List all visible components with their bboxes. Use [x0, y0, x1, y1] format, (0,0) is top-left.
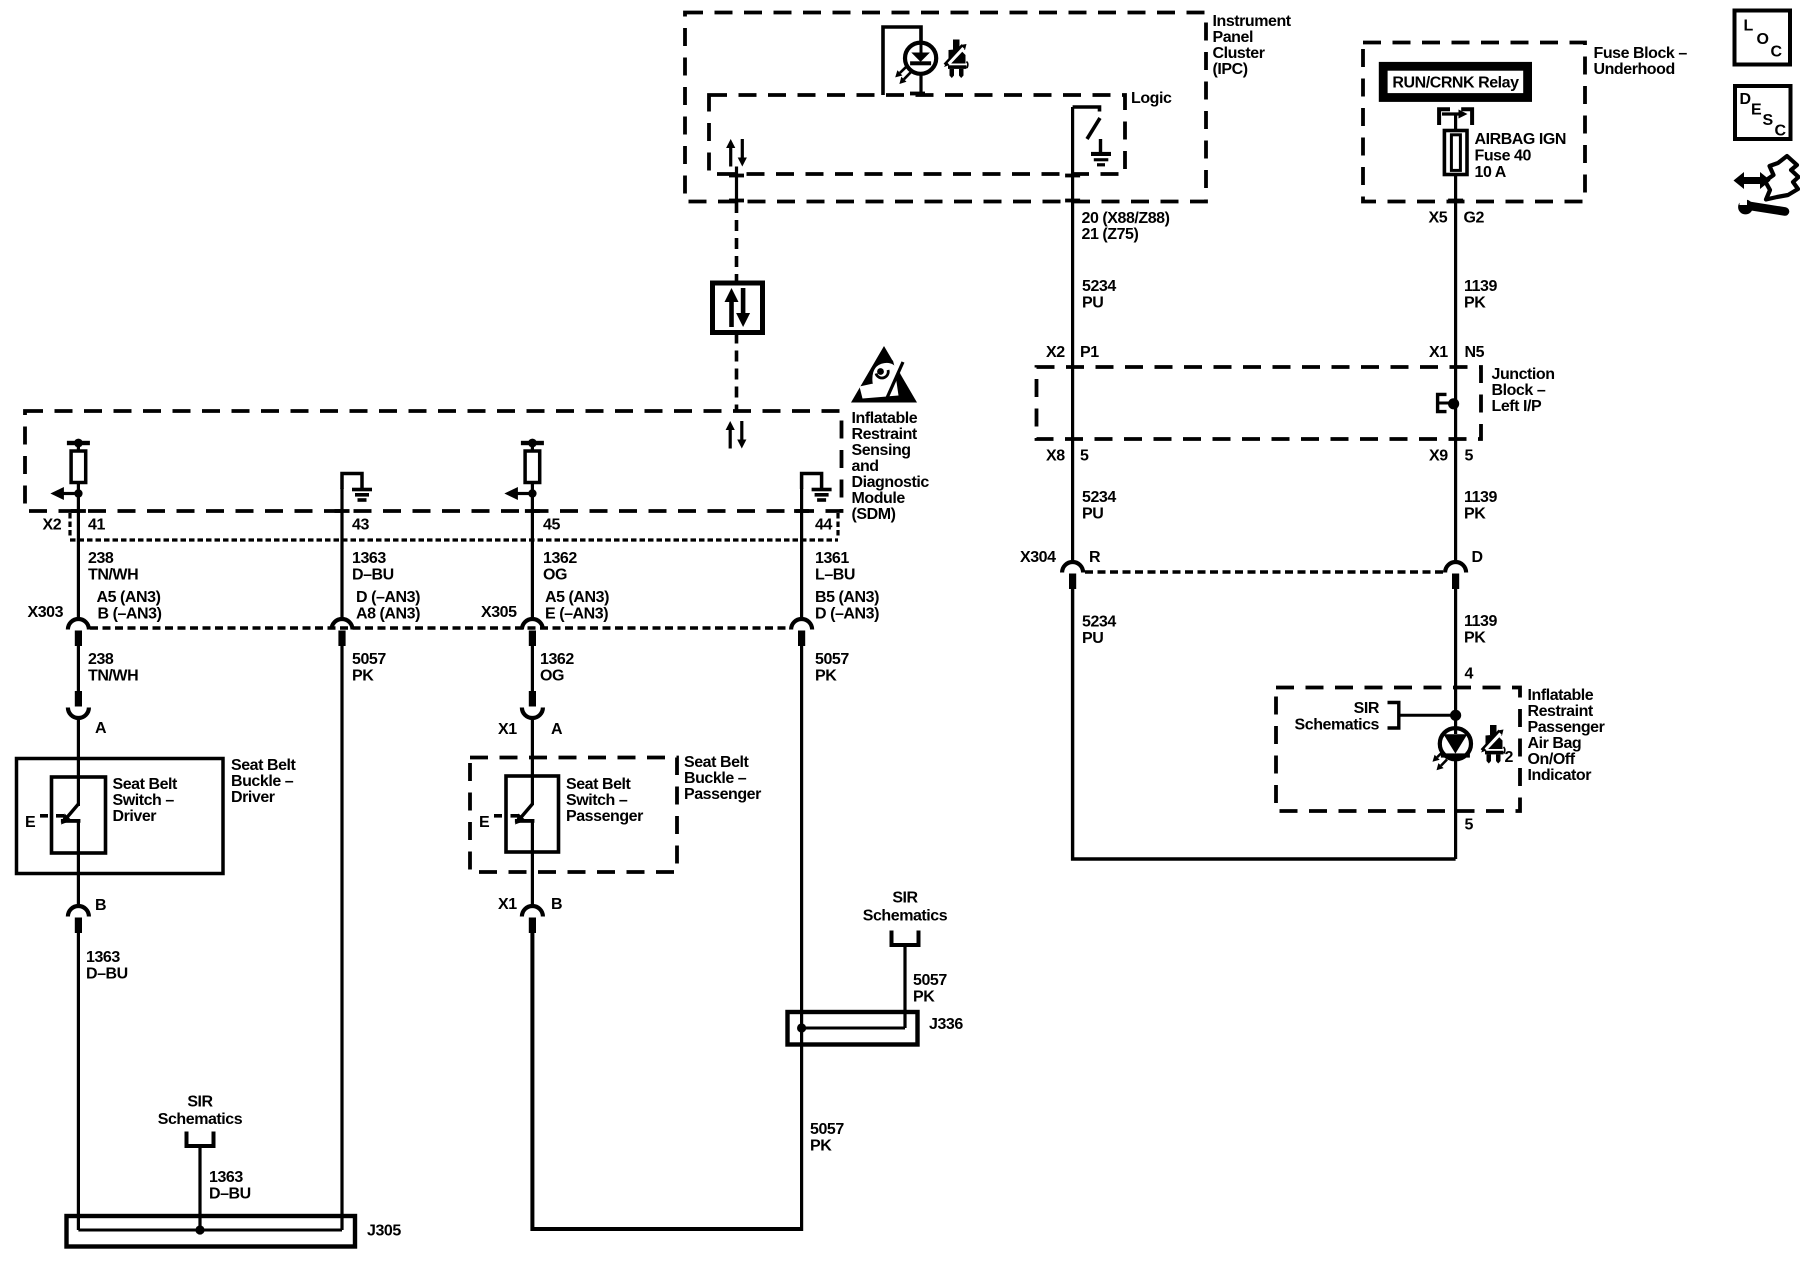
wire through indicator (pin 4 to pin 5) — [1454, 728, 1457, 859]
svg-text:Restraint: Restraint — [852, 426, 918, 443]
svg-text:D–BU: D–BU — [352, 567, 394, 584]
svg-text:5: 5 — [1465, 817, 1474, 834]
warning triangle (air bag caution) — [851, 346, 917, 403]
svg-text:SIR: SIR — [892, 890, 918, 907]
wire: passenger buckle return to ground rail — [532, 933, 801, 1229]
svg-text:A8 (AN3): A8 (AN3) — [356, 606, 420, 623]
in-line connector (wire 1363) — [332, 619, 353, 646]
svg-text:PK: PK — [1464, 506, 1486, 523]
pin label 5 — [1465, 817, 1474, 834]
svg-text:PK: PK — [1464, 295, 1486, 312]
wire: passenger switch to pin B — [531, 821, 534, 906]
svg-text:B: B — [95, 897, 106, 914]
up/down arrows inside SDM — [726, 421, 747, 449]
svg-text:Driver: Driver — [113, 808, 157, 825]
in-line connector X1 pin A (passenger buckle) — [498, 691, 563, 738]
wire label 1361 L-BU — [815, 550, 855, 584]
svg-text:Switch –: Switch – — [566, 792, 628, 809]
connector boundary dashed line X304 — [1085, 570, 1443, 574]
E mechanical link (passenger) — [479, 814, 519, 831]
svg-text:Fuse Block –: Fuse Block – — [1594, 45, 1688, 62]
svg-text:5: 5 — [1465, 448, 1474, 465]
svg-text:Indicator: Indicator — [1528, 767, 1592, 784]
svg-text:PK: PK — [815, 668, 837, 685]
svg-text:B (–AN3): B (–AN3) — [98, 606, 162, 623]
wire label 1139 PK (middle) — [1464, 489, 1497, 523]
wire: 1139 PK junction block to in-line D — [1454, 367, 1457, 562]
svg-text:4: 4 — [1465, 666, 1474, 683]
wire: circuit 1362 OG (SDM 45 to X1-A) — [531, 483, 534, 620]
svg-text:J336: J336 — [929, 1016, 963, 1033]
wire label 238 TN/WH — [88, 550, 138, 584]
svg-text:5234: 5234 — [1082, 278, 1116, 295]
svg-text:C: C — [1775, 123, 1787, 140]
svg-text:OG: OG — [543, 567, 567, 584]
svg-text:5057: 5057 — [815, 651, 849, 668]
SDM connector boundary line X2 — [70, 513, 838, 540]
connector boundary dashed line X303-X305 — [90, 626, 790, 630]
in-line connector pin B (driver buckle) — [68, 897, 106, 933]
wire label 1363 D-BU (SIR branch) — [209, 1169, 251, 1203]
svg-text:D: D — [1472, 549, 1483, 566]
svg-text:AIRBAG IGN: AIRBAG IGN — [1475, 131, 1567, 148]
bidirectional signal box (between IPC and SDM) — [713, 283, 763, 333]
svg-text:PU: PU — [1082, 630, 1103, 647]
splice J305 — [67, 1216, 402, 1247]
module box: Instrument Panel Cluster (IPC) — [685, 13, 1292, 202]
svg-text:PK: PK — [913, 989, 935, 1006]
wire label 5234 PU (lower) — [1082, 614, 1116, 648]
svg-text:Restraint: Restraint — [1528, 703, 1594, 720]
svg-text:OG: OG — [540, 668, 564, 685]
wire label 5057 PK (below 44) — [815, 651, 849, 685]
wire label 5057 PK (below J336) — [810, 1121, 844, 1155]
svg-text:238: 238 — [88, 651, 114, 668]
svg-text:(IPC): (IPC) — [1213, 61, 1248, 78]
connector labels X2 | P1 and X1 | N5 — [1046, 344, 1485, 361]
wire: circuit 1363 D-BU (driver buckle to J305) — [77, 933, 80, 1230]
junction node (dot) at indicator pin 4 branch — [1450, 710, 1461, 721]
svg-text:Passenger: Passenger — [684, 786, 761, 803]
svg-text:Schematics: Schematics — [1295, 717, 1380, 734]
svg-text:D (–AN3): D (–AN3) — [815, 606, 879, 623]
wire label 238 TN/WH (below X303) — [88, 651, 138, 685]
in-line connector X305 (wire 1362) — [522, 619, 543, 646]
svg-text:Left I/P: Left I/P — [1492, 398, 1543, 415]
svg-text:Instrument: Instrument — [1213, 13, 1292, 30]
svg-text:Passenger: Passenger — [566, 808, 643, 825]
svg-text:J305: J305 — [367, 1223, 401, 1240]
svg-text:1139: 1139 — [1464, 489, 1497, 506]
svg-text:1139: 1139 — [1464, 278, 1497, 295]
wire: 1139 PK X304-D down to indicator pin 4 — [1454, 589, 1457, 728]
svg-text:E: E — [25, 814, 36, 831]
svg-text:5234: 5234 — [1082, 614, 1116, 631]
wire label 1362 OG — [543, 550, 577, 584]
svg-text:Seat Belt: Seat Belt — [684, 754, 750, 771]
svg-text:45: 45 — [543, 517, 560, 534]
SDM internal ground (pin 43 side) — [342, 474, 372, 502]
wire label 1139 PK (upper) — [1464, 278, 1497, 312]
svg-text:Seat Belt: Seat Belt — [113, 776, 179, 793]
svg-text:X5: X5 — [1429, 210, 1448, 227]
module box: Inflatable Restraint Sensing and Diagnostic Module (SDM) — [25, 410, 929, 523]
svg-text:Logic: Logic — [1131, 90, 1172, 107]
resistor (SDM passenger input pull-up) — [504, 439, 544, 500]
connector labels X8 | 5 and X9 | 5 — [1046, 448, 1474, 465]
pin label 20 (X88/Z88) / 21 (Z75) — [1082, 210, 1170, 243]
wire: circuit 1363 D-BU (SDM 43 to J305) — [340, 488, 343, 1230]
pin label 4 — [1465, 666, 1474, 683]
relay contact symbol — [1439, 109, 1472, 131]
wire: 238 TN/WH to buckle switch driver — [77, 646, 80, 806]
up/down arrows inside Logic box — [726, 139, 747, 167]
svg-text:B5 (AN3): B5 (AN3) — [815, 589, 879, 606]
svg-text:SIR: SIR — [1354, 700, 1380, 717]
svg-text:RUN/CRNK Relay: RUN/CRNK Relay — [1392, 75, 1519, 92]
svg-text:PK: PK — [1464, 630, 1486, 647]
svg-text:X1: X1 — [498, 896, 517, 913]
in-line connector pin A (driver buckle) — [68, 691, 107, 737]
wire label 1139 PK (lower) — [1464, 613, 1497, 647]
svg-text:L–BU: L–BU — [815, 567, 855, 584]
wire label 1363 D-BU — [352, 550, 394, 584]
svg-text:X9: X9 — [1429, 448, 1448, 465]
svg-text:5057: 5057 — [810, 1121, 844, 1138]
svg-text:SIR: SIR — [187, 1094, 213, 1111]
wire label 5057 PK (below 43) — [352, 651, 386, 685]
svg-text:1363: 1363 — [209, 1169, 243, 1186]
dashed wire: IPC to SDM discrete signal — [735, 202, 739, 411]
svg-text:X2: X2 — [43, 517, 62, 534]
svg-text:X303: X303 — [28, 604, 64, 621]
svg-text:D–BU: D–BU — [86, 966, 128, 983]
svg-text:5234: 5234 — [1082, 489, 1116, 506]
in-line connector (wire 1361) — [791, 619, 812, 646]
LOC legend box — [1735, 11, 1791, 65]
svg-text:5: 5 — [1080, 448, 1089, 465]
svg-text:Block –: Block – — [1492, 382, 1546, 399]
svg-text:1362: 1362 — [543, 550, 577, 567]
svg-text:X305: X305 — [481, 604, 517, 621]
svg-text:Inflatable: Inflatable — [852, 410, 918, 427]
svg-text:2: 2 — [1505, 749, 1514, 766]
svg-text:Underhood: Underhood — [1594, 61, 1675, 78]
svg-text:Schematics: Schematics — [158, 1111, 243, 1128]
component box: Seat Belt Buckle - Passenger — [470, 754, 761, 872]
svg-text:On/Off: On/Off — [1528, 751, 1576, 768]
svg-text:Seat Belt: Seat Belt — [566, 776, 632, 793]
module box: Junction Block - Left I/P — [1037, 366, 1555, 439]
component box: Seat Belt Buckle - Driver — [17, 757, 297, 874]
LED indicator lamp U1 (IPC seat belt telltale) — [895, 42, 936, 84]
wire: IPC logic pin 20/21 vertical (to junction block) — [1065, 107, 1080, 367]
switch box: Seat Belt Switch - Passenger — [506, 776, 643, 852]
svg-text:E (–AN3): E (–AN3) — [545, 606, 608, 623]
svg-text:N5: N5 — [1465, 344, 1485, 361]
svg-text:X1: X1 — [1429, 344, 1448, 361]
svg-text:X1: X1 — [498, 721, 517, 738]
E mechanical link (driver) — [25, 814, 64, 831]
seat belt person icon with 2 (indicator) — [1481, 725, 1514, 766]
svg-text:Sensing: Sensing — [852, 442, 911, 459]
svg-text:41: 41 — [88, 517, 105, 534]
svg-text:A5 (AN3): A5 (AN3) — [545, 589, 609, 606]
svg-text:B: B — [551, 896, 562, 913]
svg-text:Inflatable: Inflatable — [1528, 687, 1594, 704]
wire: driver switch to pin B — [77, 822, 80, 906]
wire ticks at SDM bottom edge — [71, 509, 809, 513]
svg-text:E: E — [479, 814, 490, 831]
connector label X5 | G2 — [1429, 210, 1485, 227]
svg-text:Panel: Panel — [1213, 29, 1253, 46]
svg-text:Schematics: Schematics — [863, 908, 948, 925]
wire label 5234 PU (middle) — [1082, 489, 1116, 523]
svg-text:X8: X8 — [1046, 448, 1065, 465]
switch S1: seat belt switch driver — [61, 804, 81, 825]
svg-text:Buckle –: Buckle – — [684, 770, 747, 787]
junction block bus attachment symbol — [1438, 394, 1460, 411]
svg-text:X2: X2 — [1046, 344, 1065, 361]
svg-text:R: R — [1089, 549, 1101, 566]
wire: 5234 PU junction block to X304 — [1071, 367, 1074, 562]
svg-text:Passenger: Passenger — [1528, 719, 1605, 736]
wire label 1362 OG (below X305) — [540, 651, 574, 685]
svg-text:P1: P1 — [1080, 344, 1099, 361]
in-line connector X304 pin D — [1445, 562, 1466, 589]
svg-text:G2: G2 — [1464, 210, 1485, 227]
svg-text:C: C — [1771, 44, 1783, 61]
logic switch to ground (IPC) — [1073, 107, 1111, 166]
module box: Fuse Block - Underhood — [1363, 43, 1687, 202]
svg-text:L: L — [1744, 18, 1754, 35]
in-line connector X303 (wire 238) — [68, 619, 89, 646]
svg-text:Junction: Junction — [1492, 366, 1555, 383]
svg-text:21 (Z75): 21 (Z75) — [1082, 226, 1139, 243]
RUN/CRNK Relay label box — [1383, 66, 1527, 97]
svg-text:10 A: 10 A — [1475, 164, 1507, 181]
svg-text:44: 44 — [815, 517, 832, 534]
seat belt indicator lamp bracket (IPC) — [883, 27, 925, 95]
svg-text:D: D — [1740, 91, 1751, 108]
svg-text:1363: 1363 — [352, 550, 386, 567]
svg-text:PK: PK — [352, 668, 374, 685]
svg-text:43: 43 — [352, 517, 369, 534]
in-line connector X304 pin R — [1062, 562, 1083, 589]
svg-text:PU: PU — [1082, 295, 1103, 312]
svg-text:X304: X304 — [1020, 549, 1056, 566]
svg-text:Driver: Driver — [231, 789, 275, 806]
svg-text:238: 238 — [88, 550, 114, 567]
resistor (SDM driver input pull-up) — [50, 439, 90, 500]
svg-text:D–BU: D–BU — [209, 1186, 251, 1203]
svg-text:PK: PK — [810, 1138, 832, 1155]
in-line connector X1 pin B (passenger buckle) — [498, 896, 562, 933]
LED lamp: passenger air bag on/off indicator — [1433, 728, 1472, 770]
harness connector pinout labels (X303/X305 row) — [28, 589, 880, 623]
repair/arrow-wrench icon — [1734, 156, 1799, 214]
wire: circuit 238 TN/WH (SDM 41 to X303) — [77, 483, 80, 620]
labels X304 R D — [1020, 549, 1483, 566]
svg-text:and: and — [852, 458, 879, 475]
SIR Schematics reference (J336 branch) — [863, 890, 948, 1029]
logic box inside IPC — [709, 90, 1172, 174]
svg-text:Fuse 40: Fuse 40 — [1475, 148, 1532, 165]
svg-text:Air Bag: Air Bag — [1528, 735, 1582, 752]
wire label 5057 PK (SIR branch) — [913, 972, 947, 1006]
svg-text:1363: 1363 — [86, 949, 120, 966]
svg-text:O: O — [1757, 31, 1769, 48]
svg-text:A: A — [551, 721, 563, 738]
seat belt person icon (IPC) — [944, 40, 968, 79]
SDM pin labels X2: 41 43 45 44 — [43, 517, 833, 534]
SDM internal ground (pin 44 side) — [802, 474, 832, 502]
fuse F40: AIRBAG IGN Fuse 40 10 A — [1444, 131, 1566, 182]
svg-text:5057: 5057 — [352, 651, 386, 668]
svg-text:Diagnostic: Diagnostic — [852, 474, 930, 491]
svg-text:Seat Belt: Seat Belt — [231, 757, 297, 774]
svg-text:20 (X88/Z88): 20 (X88/Z88) — [1082, 210, 1170, 227]
svg-text:TN/WH: TN/WH — [88, 668, 138, 685]
switch S2: seat belt switch passenger — [515, 804, 535, 825]
svg-text:TN/WH: TN/WH — [88, 567, 138, 584]
svg-text:1362: 1362 — [540, 651, 574, 668]
svg-text:(SDM): (SDM) — [852, 506, 896, 523]
SIR Schematics reference (J305 branch) — [158, 1094, 243, 1231]
svg-text:5057: 5057 — [913, 972, 947, 989]
wire label 1363 D-BU (lower) — [86, 949, 128, 983]
IPC logic output wire w/ ticks (pin to IPC edge) — [729, 167, 744, 203]
svg-text:PU: PU — [1082, 506, 1103, 523]
svg-text:A5 (AN3): A5 (AN3) — [97, 589, 161, 606]
svg-text:1139: 1139 — [1464, 613, 1497, 630]
wire label 5234 PU (upper) — [1082, 278, 1116, 312]
svg-text:E: E — [1751, 102, 1762, 119]
module box: Inflatable Restraint Passenger Air Bag On/Off Indicator — [1276, 687, 1605, 811]
svg-text:1361: 1361 — [815, 550, 849, 567]
DESC legend box — [1735, 86, 1791, 140]
svg-text:Switch –: Switch – — [113, 792, 175, 809]
svg-text:Module: Module — [852, 490, 906, 507]
svg-text:Buckle –: Buckle – — [231, 773, 294, 790]
svg-text:D (–AN3): D (–AN3) — [356, 589, 420, 606]
svg-text:Cluster: Cluster — [1213, 45, 1265, 62]
switch box: Seat Belt Switch - Driver — [52, 776, 179, 853]
wire: 5234 PU X304 down and across bottom — [1073, 589, 1456, 859]
svg-text:S: S — [1763, 112, 1774, 129]
wire: fuse output vertical (to junction block) — [1448, 175, 1463, 368]
SIR Schematics reference (indicator) — [1295, 700, 1456, 734]
splice J336 — [788, 1012, 964, 1045]
wire: circuit 1361 L-BU (SDM 44 to J336) — [800, 488, 803, 1231]
svg-text:A: A — [95, 720, 107, 737]
wire: 1362 OG to buckle switch passenger — [531, 646, 534, 805]
